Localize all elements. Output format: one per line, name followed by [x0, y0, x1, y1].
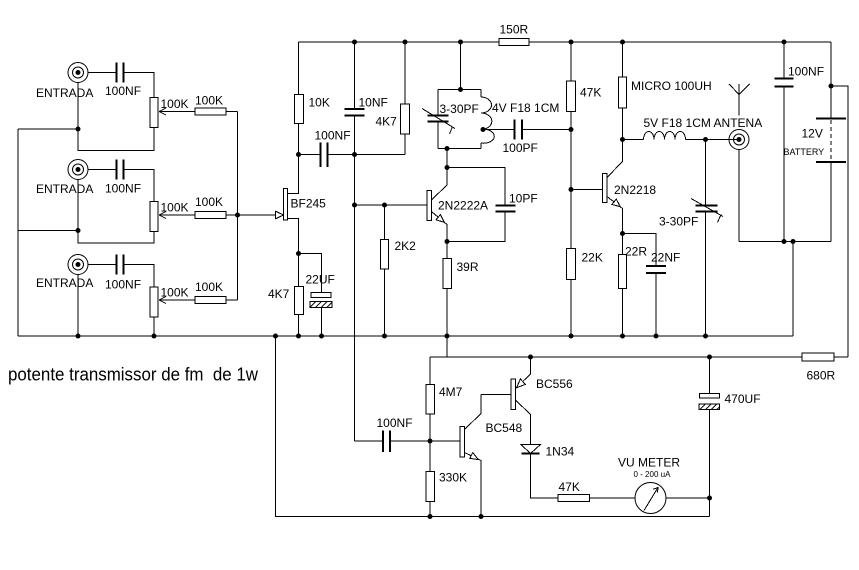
svg-text:470UF: 470UF	[725, 392, 761, 406]
wire bus to meter rail	[446, 336, 448, 357]
resistor R13 680R	[802, 353, 834, 361]
wire 680R to far right line	[834, 356, 848, 358]
svg-text:2K2: 2K2	[395, 239, 417, 253]
svg-text:4K7: 4K7	[376, 115, 398, 129]
svg-text:10K: 10K	[309, 96, 330, 110]
power rail top wire	[299, 41, 500, 43]
wire collector to L3	[623, 139, 644, 141]
wire audio feed elbow	[355, 440, 383, 442]
wire C4 to 4K7 bottom	[328, 154, 405, 156]
node bus 39R	[445, 334, 450, 339]
svg-text:4K7: 4K7	[268, 287, 290, 301]
capacitor C1 100NF	[117, 63, 124, 83]
transistor Q1 BF245	[276, 155, 299, 287]
inductor L1 4V F18 1CM	[481, 90, 494, 149]
svg-text:100K: 100K	[195, 94, 223, 108]
node bus 22NF	[654, 334, 659, 339]
svg-text:22NF: 22NF	[651, 251, 680, 265]
wire 2K2 top	[384, 205, 386, 240]
ground return wire right	[739, 241, 831, 243]
capacitor C4 100NF	[321, 143, 328, 168]
resistor R16 47K	[558, 495, 590, 502]
svg-text:100K: 100K	[161, 286, 189, 300]
wire 4K7 source to ground bus	[298, 315, 300, 337]
wire base line to 2N2222A	[355, 204, 428, 206]
resistor R7 2K2	[381, 240, 389, 270]
wire 4K7 to node line	[404, 134, 406, 155]
svg-text:5V F18 1CM ANTENA: 5V F18 1CM ANTENA	[644, 116, 763, 130]
wire rail to 470UF	[709, 357, 711, 394]
wire P2 bottom return	[78, 180, 154, 244]
svg-text:ENTRADA: ENTRADA	[36, 276, 93, 290]
capacitor C9 22NF	[646, 266, 666, 273]
node antenna branch	[703, 137, 708, 142]
node 100NF bottom	[782, 239, 787, 244]
variable capacitor CV1 3-30PF	[422, 90, 455, 149]
node bus 22K	[569, 334, 574, 339]
wire R3 to mix bus	[226, 299, 238, 301]
wire into connector center	[729, 139, 739, 141]
node Q3 emitter	[620, 231, 625, 236]
inductor L2 MICRO 100UH	[619, 77, 627, 108]
resistor R12 22R	[619, 255, 627, 289]
wire J3 to C3	[88, 264, 116, 266]
node 100PF junction	[569, 127, 574, 132]
resistor R10 22K	[567, 249, 576, 280]
wire R1 to mix bus	[226, 111, 238, 113]
wire source branch to 22UF	[299, 254, 322, 293]
wire P3 bottom to ground bus	[153, 317, 155, 336]
svg-text:10PF: 10PF	[509, 192, 538, 206]
wire C3 to pot P3 top	[124, 265, 154, 288]
wire tank bottom	[438, 148, 481, 150]
resistor R6 4K7	[401, 104, 410, 134]
variable capacitor CV2 3-30PF	[691, 140, 723, 337]
wire L2 to collector node	[622, 108, 624, 140]
mix bus wire	[237, 112, 239, 301]
wire P3 wiper to R3	[159, 299, 195, 301]
wire 22R to ground bus	[622, 289, 624, 337]
wire 47K to meter	[590, 497, 636, 499]
svg-text:680R: 680R	[807, 369, 836, 383]
svg-text:100NF: 100NF	[377, 416, 413, 430]
wire J1 to C1	[88, 72, 116, 74]
connector J4 ANTENA	[729, 130, 749, 150]
svg-text:2N2222A: 2N2222A	[438, 199, 488, 213]
node rail 10NF	[352, 40, 357, 45]
node bus P3	[152, 334, 157, 339]
antenna symbol	[729, 84, 750, 116]
node meter output junction	[707, 496, 712, 501]
svg-text:1N34: 1N34	[546, 445, 575, 459]
wire 39R to ground bus	[446, 289, 448, 337]
wire rail to 47K	[570, 42, 572, 81]
meter M1 VU METER	[635, 483, 666, 514]
node rail 100NF	[782, 40, 787, 45]
wire C11 to base node	[391, 440, 461, 442]
svg-text:47K: 47K	[559, 480, 580, 494]
wire connector J4 ground	[738, 150, 740, 242]
power rail top wire right	[529, 41, 831, 43]
node rail 4K7	[403, 40, 408, 45]
wire 22K to ground bus	[570, 280, 572, 337]
capacitor C3 100NF	[117, 255, 124, 275]
wire P1 wiper to R1	[159, 111, 195, 113]
svg-text:100NF: 100NF	[105, 278, 141, 292]
node meter rail 470UF	[707, 355, 712, 360]
capacitor C7 100PF	[515, 120, 523, 140]
node tank top	[458, 87, 463, 92]
node J2 ground branch	[76, 228, 81, 233]
wire mix bus to BF245 gate	[238, 214, 278, 216]
node rail tank feed	[458, 40, 463, 45]
wire J2 to C2	[88, 169, 116, 171]
wire to left ground bus	[18, 230, 78, 232]
wire 47K down to 22K	[570, 112, 572, 249]
node base line junction	[352, 203, 357, 208]
svg-text:100K: 100K	[195, 195, 223, 209]
svg-text:3-30PF: 3-30PF	[659, 215, 698, 229]
resistor R9 47K	[567, 81, 576, 112]
node bus 22R	[620, 334, 625, 339]
node bus 4K7	[296, 334, 301, 339]
wire bypass to far right line	[831, 86, 848, 357]
node J1 ground branch	[76, 127, 81, 132]
wire J3 bottom to ground bus	[77, 275, 79, 337]
svg-text:VU METER: VU METER	[618, 456, 680, 470]
potentiometer P1 100K	[150, 98, 166, 128]
wire emitter to 22NF	[623, 234, 657, 266]
svg-text:MICRO 100UH: MICRO 100UH	[631, 79, 712, 93]
svg-text:150R: 150R	[500, 23, 529, 37]
resistor R11 39R	[443, 259, 452, 289]
resistor R3 100K	[195, 297, 226, 304]
wire L1 tap to C7	[483, 129, 514, 131]
wire D1 to 47K	[531, 454, 559, 498]
potentiometer P3 100K	[150, 287, 166, 317]
svg-text:100K: 100K	[161, 201, 189, 215]
wire base node to 330K	[429, 441, 431, 472]
wire 22NF to ground bus	[655, 274, 657, 336]
resistor R15 330K	[426, 472, 435, 502]
wire 2N2218 base	[571, 189, 603, 191]
node BF245 source branch	[296, 251, 301, 256]
inductor L3 5V F18 1CM	[644, 131, 686, 139]
svg-text:4M7: 4M7	[439, 385, 463, 399]
wire 470UF down to bottom rail	[709, 410, 711, 517]
battery B1 12V	[816, 42, 846, 242]
svg-text:BC556: BC556	[536, 377, 573, 391]
wire P1 bottom return	[78, 83, 154, 151]
node Q2 collector	[445, 165, 450, 170]
node 10NF junction	[352, 152, 357, 157]
left ground bus wire	[17, 129, 19, 336]
node bus 2K2	[382, 334, 387, 339]
wire C7 to 47K line	[523, 129, 572, 131]
svg-text:100NF: 100NF	[105, 182, 141, 196]
svg-text:3-30PF: 3-30PF	[440, 102, 479, 116]
svg-text:4V F18 1CM: 4V F18 1CM	[492, 101, 559, 115]
capacitor C2 100NF	[117, 160, 124, 180]
wire meter to 470UF line	[666, 497, 710, 499]
svg-text:100NF: 100NF	[788, 65, 824, 79]
bottom rail wire	[276, 336, 710, 517]
svg-text:100K: 100K	[195, 280, 223, 294]
wire rail down to 10K	[298, 42, 300, 95]
wire BC548 collector to BC556 base	[481, 394, 511, 396]
potentiometer P2 100K	[150, 202, 166, 232]
wire rail to tank top	[460, 42, 462, 90]
node battery bypass	[829, 84, 834, 89]
wire P2 wiper to R2	[159, 214, 195, 216]
svg-text:100NF: 100NF	[105, 84, 141, 98]
connector J1 (ENTRADA 1)	[68, 63, 88, 83]
wire 330K to bottom rail	[429, 502, 431, 517]
node ground drop	[791, 239, 796, 244]
wire R2 to mix bus	[226, 214, 238, 216]
svg-text:ENTRADA: ENTRADA	[36, 86, 93, 100]
wire 10PF to emitter node	[447, 213, 505, 242]
wire meter rail left end down to 4M7	[429, 357, 431, 385]
meter rail wire	[430, 356, 802, 358]
node drain	[296, 152, 301, 157]
node meter rail BC556 emitter	[528, 355, 533, 360]
wire 22UF to ground bus	[321, 308, 323, 337]
resistor R4 150R	[499, 39, 529, 46]
node bus lower-rail drop	[273, 334, 278, 339]
svg-text:BATTERY: BATTERY	[784, 147, 825, 157]
wire audio feed vertical	[354, 155, 356, 442]
svg-text:2N2218: 2N2218	[614, 183, 656, 197]
main ground bus	[18, 335, 793, 337]
wire tank top	[438, 89, 481, 91]
node Q2 emitter	[445, 239, 450, 244]
wire collector node to 10PF	[447, 168, 505, 206]
svg-text:potente transmissor de fm de: potente transmissor de fm de 1w	[8, 365, 259, 385]
wire rail down to 4K7	[404, 42, 406, 104]
node 2N2218 base junction	[569, 187, 574, 192]
svg-text:0 - 200 uA: 0 - 200 uA	[634, 470, 672, 479]
svg-text:39R: 39R	[457, 260, 479, 274]
node bus 22UF	[319, 334, 324, 339]
connector J3 (ENTRADA 3)	[68, 255, 88, 275]
node bus J3	[76, 334, 81, 339]
resistor R1 100K	[195, 108, 226, 115]
wire ground drop to bus	[792, 242, 794, 337]
wire drain node to C4	[299, 154, 321, 156]
wire rail to L2	[622, 42, 624, 77]
resistor R8 4K7 source	[295, 287, 304, 315]
resistor R2 100K	[195, 212, 226, 219]
diode D1 1N34	[521, 445, 541, 454]
node tank bottom tap	[445, 146, 450, 151]
wire to left ground bus	[18, 128, 78, 130]
wire C1 to pot P1 top	[124, 73, 154, 98]
node Q3 collector	[620, 137, 625, 142]
connector J2 (ENTRADA 2)	[68, 160, 88, 180]
node mix bus to gate	[235, 213, 240, 218]
node rail 47K	[569, 40, 574, 45]
svg-text:10NF: 10NF	[359, 96, 388, 110]
transistor Q3 2N2218	[603, 140, 623, 234]
node bottom rail 330K	[428, 514, 433, 519]
node 2K2 top	[382, 203, 387, 208]
svg-text:ENTRADA: ENTRADA	[36, 182, 93, 196]
wire 2K2 to ground bus	[384, 269, 386, 336]
node BC548 base	[428, 439, 433, 444]
resistor R14 4M7	[426, 385, 435, 415]
capacitor C10 100NF	[775, 42, 794, 242]
svg-text:22R: 22R	[625, 245, 647, 259]
svg-text:BC548: BC548	[486, 421, 523, 435]
transistor Q5 BC556	[511, 357, 531, 444]
svg-text:22UF: 22UF	[306, 273, 335, 287]
svg-text:100PF: 100PF	[503, 141, 538, 155]
wire L3 to antenna node	[686, 139, 730, 141]
svg-text:100NF: 100NF	[315, 129, 351, 143]
capacitor C5 10NF	[345, 42, 365, 155]
node L1 tap	[481, 127, 486, 132]
node bus CV2	[703, 334, 708, 339]
wire 4M7 to base node	[429, 414, 431, 441]
svg-text:330K: 330K	[439, 471, 467, 485]
node rail MICRO	[620, 40, 625, 45]
svg-text:12V: 12V	[802, 127, 823, 141]
capacitor C6 22UF electrolytic	[310, 293, 332, 308]
svg-text:22K: 22K	[582, 251, 603, 265]
wire emitter node to 39R	[446, 242, 448, 259]
node bottom rail BC548 emitter	[479, 514, 484, 519]
capacitor C8 10PF	[496, 206, 516, 212]
transistor Q4 BC548	[460, 395, 481, 517]
svg-text:BF245: BF245	[291, 197, 327, 211]
capacitor C12 470UF electrolytic	[699, 394, 720, 410]
capacitor C11 100NF	[383, 431, 390, 453]
wire 10K to drain node	[298, 124, 300, 155]
svg-text:100K: 100K	[161, 97, 189, 111]
wire tank tap to collector node	[446, 149, 448, 168]
wire C2 to pot P2 top	[124, 170, 154, 202]
svg-text:47K: 47K	[580, 86, 601, 100]
resistor R5 10K	[295, 95, 304, 124]
wire emitter to 22R	[622, 234, 624, 255]
transistor Q2 2N2222A	[427, 168, 447, 242]
